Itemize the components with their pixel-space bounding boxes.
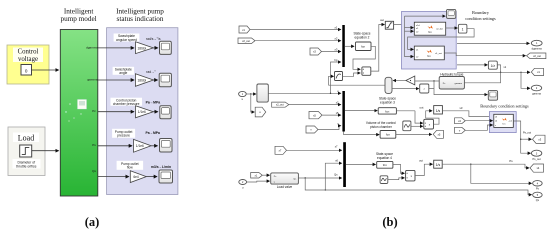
product block 4 (406, 170, 415, 181)
integrator block 4 (434, 160, 443, 168)
port label Ps (92, 143, 96, 147)
row3 label control piston chamber pressure (111, 98, 143, 106)
wire Qs bottom long line (305, 178, 531, 195)
sine source 3 (403, 121, 411, 131)
svg-text:pump model: pump model (61, 15, 97, 23)
row1 label swashplate angular speed (114, 34, 140, 42)
svg-text:dgamma: dgamma (532, 47, 543, 51)
wire volume fcn to goto x5 (396, 133, 432, 135)
svg-text:180/pi: 180/pi (137, 78, 146, 82)
wire mux2 to fcn3 (345, 110, 377, 112)
row4 label pump outlet pressure (112, 129, 135, 138)
goto tag x4 (right) (530, 164, 544, 172)
svg-text:gamma: gamma (455, 83, 463, 85)
wire v to panel2 (465, 125, 492, 130)
fcn block state-space equation 3 (378, 108, 396, 114)
svg-text:x2_out: x2_out (533, 54, 541, 58)
wire sum4 to integrator4 (415, 164, 433, 175)
port label gamma (87, 77, 98, 81)
from tag V (mid) (306, 126, 318, 133)
wire motor out to mux2 (268, 92, 341, 94)
fcn block state-space equation 2 (356, 42, 372, 51)
svg-text:180/pi: 180/pi (137, 46, 146, 50)
svg-text:x2: x2 (335, 37, 338, 41)
wire -K- junction to display2 (429, 81, 488, 95)
svg-text:pressure: pressure (117, 134, 130, 138)
wire x5 to mux2 (322, 114, 341, 116)
from tag x5 (mid) (309, 112, 322, 119)
load valve block (271, 173, 299, 184)
row3 display (153, 106, 171, 119)
wire Ps drop to oval (471, 164, 532, 183)
wire constant to pump model (32, 69, 59, 71)
svg-text:angle: angle (119, 71, 127, 75)
wire lookup to sum1 (343, 73, 361, 76)
outport oval Qs (533, 192, 543, 202)
wire x4 tag to load valve (262, 174, 269, 176)
long x1 line (457, 71, 530, 73)
wire x3 to mux1 (322, 51, 341, 53)
svg-text:gamma: gamma (87, 77, 98, 81)
wire load valve to mux4 port3 (298, 177, 341, 179)
svg-text:Pa→MPa: Pa→MPa (146, 101, 161, 105)
svg-text:Pa→MPa: Pa→MPa (145, 131, 160, 135)
row4 display (151, 139, 172, 153)
svg-text:out: out (380, 18, 384, 22)
annotation volume of the control piston chamber (366, 121, 396, 129)
outport oval dgamma (531, 40, 542, 50)
svg-text:Load valve: Load valve (277, 185, 293, 189)
wire drop to sum3 (415, 111, 423, 123)
wire product3 loop to integrator3 (426, 111, 439, 124)
constant block 0 (21, 65, 32, 76)
hp riser wire (331, 62, 341, 93)
gain triangle left (406, 76, 415, 85)
svg-text:angular speed: angular speed (116, 38, 137, 42)
svg-text:x3: x3 (460, 106, 463, 110)
unit delay block 1/z (488, 61, 497, 69)
sine source 4 (380, 176, 388, 184)
wire torque out up to x1 line (464, 72, 500, 83)
row5 wire (98, 176, 129, 178)
svg-text:hp: hp (334, 58, 338, 62)
small mux (gamma collect) (385, 77, 392, 93)
wire step to pump model (32, 150, 59, 152)
panel1 feed branch p3 (405, 30, 414, 32)
inport oval u2 (239, 180, 247, 190)
wire gamma drop (521, 72, 530, 88)
svg-text:Load: Load (18, 133, 34, 142)
row5 display (146, 170, 172, 183)
wire fn2 out to goto x2_out (444, 53, 525, 56)
svg-text:Ps_out: Ps_out (533, 157, 541, 161)
from tag v (to panel2) (455, 127, 466, 133)
goto tag x1 (right) (531, 68, 543, 75)
from tag x3 (310, 48, 322, 55)
wire x2_out to mux2 (289, 104, 341, 106)
step block: diameter of throttle orifice (13, 145, 41, 169)
row2 wire (98, 79, 134, 81)
title: Intelligent pump status indication (116, 7, 164, 23)
status indication lavender panel (107, 28, 178, 195)
svg-text:piston chamber: piston chamber (370, 125, 393, 129)
svg-text:x2_out: x2_out (276, 104, 284, 107)
row3 gain 1/1e6 (136, 106, 154, 118)
boundary panel 2 (489, 112, 516, 133)
wire torque to triangle (415, 80, 439, 82)
row1 display (153, 41, 171, 54)
from tag x1 (top left) (239, 26, 250, 33)
fcn block state-space equation 4 (377, 161, 393, 168)
wire triangle to mux3 (393, 80, 406, 82)
wire mux1 to fcn2 (345, 45, 354, 47)
wire dgamma long (457, 42, 529, 44)
svg-text:throttle orifice: throttle orifice (16, 164, 36, 168)
outport oval Ps (533, 181, 543, 191)
from tag x2_out (mid) (272, 102, 289, 107)
outport oval gamma (531, 85, 541, 95)
annotation boundary condition settings (top) (465, 10, 496, 21)
svg-text:Boundary condition settings: Boundary condition settings (480, 103, 529, 108)
svg-text:1/s: 1/s (436, 109, 441, 113)
annotation state-space equation 4 (376, 152, 393, 160)
svg-text:gamma: gamma (532, 92, 541, 95)
svg-text:equation 2: equation 2 (355, 35, 370, 39)
mux bar 2 (342, 91, 345, 132)
wire x2 to mux1 (255, 40, 341, 42)
svg-text:Ps_out: Ps_out (523, 131, 531, 135)
MATLAB function block x1_out (414, 46, 444, 60)
wire IC feedback loop into fn2 (408, 29, 475, 50)
goto tag x2_out (right) (527, 53, 546, 59)
port label Pc (92, 109, 96, 113)
svg-text:rad→°: rad→° (146, 70, 156, 74)
port label Qs (92, 169, 96, 173)
from tag x4 (to panel2) (455, 118, 466, 124)
svg-text:1: 1 (462, 28, 464, 32)
goto tag u (down) (255, 107, 266, 117)
row5 label pump outlet flow (117, 161, 144, 170)
wire fn1 to IC block (446, 27, 458, 29)
hydraulic torque block (439, 77, 464, 90)
wire mux3out loop to lookup (329, 76, 386, 85)
wire mux3 to -K- (393, 88, 419, 90)
IC block [1] (458, 24, 467, 33)
goto tag x5 (mid right) (433, 130, 443, 138)
svg-text:1/s: 1/s (436, 163, 441, 167)
wire u to motor block (246, 93, 256, 95)
sum block 1 (362, 67, 371, 75)
lookup table block (335, 72, 343, 81)
svg-text:equation 4: equation 4 (377, 156, 392, 160)
from tag x7 (275, 146, 287, 154)
wire u branch down to goto (251, 94, 255, 112)
svg-text:0: 0 (25, 68, 28, 73)
row5 gain 6e4 (130, 171, 146, 183)
row1 gain 180/pi (136, 42, 154, 54)
svg-text:m3/s→L/min: m3/s→L/min (151, 165, 171, 169)
svg-text:(a): (a) (85, 215, 100, 229)
svg-text:condition settings: condition settings (465, 16, 496, 21)
wire delay down to x1 line (497, 65, 500, 72)
title: Intelligent pump model (61, 7, 97, 23)
MATLAB function block Ps_out (494, 114, 514, 127)
from tag x2_out (238, 38, 255, 44)
intelligent pump model green block (60, 30, 98, 197)
fcn block volume (380, 131, 396, 139)
wire mux4 to fcn4 (346, 163, 376, 165)
svg-text:x1_out: x1_out (435, 52, 442, 55)
svg-text:1/1e6: 1/1e6 (136, 144, 144, 148)
svg-text:voltage: voltage (18, 56, 38, 63)
row4 wire (98, 145, 132, 147)
mux bar 3 (343, 142, 346, 187)
wire x7 to mux4 (287, 149, 342, 151)
goto tag x3 (right) (533, 135, 546, 143)
wire fcn2 loop down to sum1 (353, 46, 375, 69)
wire fcn3 to sum3 corner (396, 110, 415, 112)
svg-text:fcn: fcn (383, 163, 387, 167)
svg-text:Hydraulic torque: Hydraulic torque (440, 72, 463, 76)
svg-text:1/1e6: 1/1e6 (138, 110, 146, 114)
svg-text:x2_dot: x2_dot (436, 28, 443, 31)
row2 display (154, 73, 172, 87)
control voltage yellow area (7, 45, 49, 84)
svg-text:Intelligent: Intelligent (64, 7, 94, 15)
row2 label swashplate angle (113, 67, 135, 75)
wire sine4 to sum4 (388, 178, 405, 180)
wire to display1 (405, 15, 446, 17)
svg-text:Qs: Qs (92, 169, 96, 173)
svg-text:rad/s→°/s: rad/s→°/s (146, 37, 161, 41)
svg-text:status indication: status indication (117, 15, 164, 23)
svg-text:out: out (419, 158, 423, 162)
saturation block (385, 21, 393, 29)
svg-text:(b): (b) (382, 215, 397, 229)
svg-text:x1: x1 (335, 25, 338, 29)
svg-text:out: out (420, 105, 424, 109)
gain block -K- (420, 84, 429, 93)
svg-text:Boundary: Boundary (472, 10, 490, 15)
annotation state-space equation 3 (379, 97, 396, 105)
svg-text:_out: _out (507, 120, 512, 123)
wire V to mux2 (318, 126, 341, 130)
wire x4 to panel2 (465, 120, 492, 122)
product block 3 (424, 119, 434, 129)
wire sum1 up to saturation (371, 25, 385, 72)
wire saturation into panel1 fn1 (394, 23, 414, 25)
svg-text:1/z: 1/z (491, 64, 496, 68)
integrator block 3 (434, 106, 443, 114)
svg-text:fcn: fcn (361, 45, 365, 49)
svg-text:Intelligent pump: Intelligent pump (116, 7, 164, 15)
wire u2 to load valve (247, 180, 270, 183)
display block 2 (488, 91, 497, 101)
svg-text:Control: Control (18, 49, 39, 56)
svg-text:6e4: 6e4 (133, 175, 139, 179)
outport oval Ps_out (531, 150, 541, 161)
svg-text:v: v (495, 125, 496, 127)
svg-text:dgamma: dgamma (86, 45, 98, 49)
wire fcn4 to sum4 (393, 164, 405, 173)
svg-text:x2_out: x2_out (242, 39, 250, 43)
wire mux2 bottom to volume fcn (344, 132, 380, 135)
wire x1 to mux1 (250, 29, 341, 31)
wire panel2 out to x3 goto and oval (513, 121, 530, 153)
panel1 feed branch p2 (405, 27, 414, 29)
wire into unit delay (457, 64, 487, 66)
inport oval u (motor input) (239, 91, 247, 101)
svg-text:equation 3: equation 3 (380, 100, 395, 104)
port label dgamma (86, 45, 98, 49)
wire integrator3 to panel2 (442, 111, 492, 117)
MATLAB function block x2_dot (414, 22, 445, 35)
svg-text:fcn: fcn (385, 109, 389, 113)
svg-text:Pc: Pc (92, 109, 96, 113)
wire integrator4 to goto x4 (442, 164, 529, 168)
row2 gain 180/pi (135, 74, 153, 87)
annotation state-space equation 2 (353, 32, 370, 40)
panel1 internal feed vertical (405, 16, 414, 56)
load gray area (8, 127, 45, 176)
boundary panel 1 (402, 12, 457, 70)
wire riser to mux4 port2 (325, 163, 341, 190)
row3 wire (98, 111, 134, 113)
svg-text:fcn: fcn (386, 133, 390, 137)
from tag x4 (bottom) (251, 173, 263, 179)
row1 wire (98, 47, 134, 49)
wire sine3 to sum3 (411, 125, 423, 127)
row4 gain 1/1e6 (134, 139, 152, 152)
display block in panel1 (447, 9, 456, 18)
svg-text:Ps: Ps (92, 143, 96, 147)
mux bar 1 (342, 25, 345, 67)
svg-text:flow: flow (127, 166, 133, 170)
svg-text:x3: x3 (335, 47, 338, 51)
motor subsystem block (257, 84, 268, 102)
